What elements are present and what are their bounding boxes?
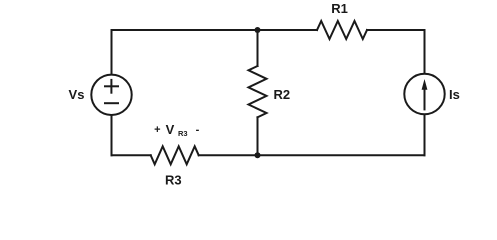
svg-text:-: -: [196, 124, 200, 136]
svg-text:R2: R2: [274, 87, 291, 102]
svg-text:V: V: [166, 122, 175, 137]
wire top rail left segment: [112, 29, 258, 31]
junction node top: [255, 27, 261, 33]
wire top rail right segment: [367, 29, 425, 31]
current source Is: [404, 74, 444, 114]
svg-text:R1: R1: [331, 1, 348, 16]
resistor R3: [151, 146, 199, 164]
wire bottom rail middle segment: [199, 154, 258, 156]
label + V R3 - annotation: [154, 122, 199, 138]
Vs plus sign: [105, 80, 118, 93]
wire right rail upper: [424, 30, 426, 74]
wire bottom rail left segment: [112, 154, 151, 156]
svg-text:Vs: Vs: [69, 87, 85, 102]
svg-text:Is: Is: [449, 87, 460, 102]
wire left rail upper: [111, 30, 113, 74]
wire top rail middle segment: [258, 29, 318, 31]
svg-text:R3: R3: [178, 129, 188, 138]
Is arrow shaft: [424, 87, 426, 109]
wire right rail lower: [424, 115, 426, 156]
voltage source Vs: [91, 75, 131, 115]
wire R2 branch upper: [257, 30, 259, 66]
svg-text:R3: R3: [165, 173, 182, 188]
wire R2 branch lower: [257, 117, 259, 155]
wire left rail lower: [111, 115, 113, 155]
svg-text:+: +: [154, 124, 160, 136]
resistor R2: [249, 66, 267, 117]
Vs minus sign: [105, 102, 118, 104]
Is arrowhead: [422, 79, 428, 90]
resistor R1: [317, 21, 367, 39]
junction node bottom: [255, 152, 261, 158]
wire bottom rail right segment: [258, 154, 425, 156]
